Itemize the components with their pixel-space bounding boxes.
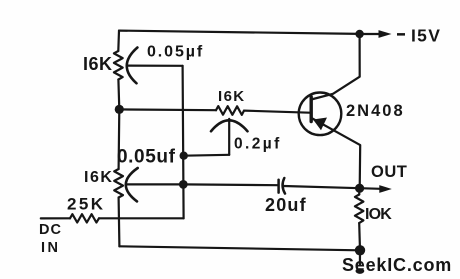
wire bottom rail (119, 246, 360, 250)
capacitor C4 20uf right curved plate (283, 178, 285, 194)
wire left rail mid (117, 80, 120, 110)
resistor R4 25K (horizontal) (70, 214, 99, 222)
svg-text:I6K: I6K (84, 169, 113, 186)
svg-text:DC: DC (39, 222, 62, 238)
wire 25K to node line (99, 217, 184, 219)
wire OUT arrow shaft (360, 187, 381, 190)
transistor Q1 circle (299, 93, 342, 136)
capacitor C2 0.2uf arc plate (211, 120, 248, 131)
wire base lead (244, 111, 310, 113)
node OUT junction dot (355, 184, 364, 193)
wire left rail upper (117, 31, 120, 51)
transistor Q1 collector lead (311, 34, 360, 100)
svg-text:0.05µf: 0.05µf (147, 44, 204, 61)
svg-text:25K: 25K (67, 195, 105, 214)
svg-text:IN: IN (41, 240, 61, 256)
svg-text:I5V: I5V (411, 25, 441, 45)
svg-text:20uf: 20uf (265, 195, 307, 215)
wire left rail lower (117, 109, 120, 169)
node -15V junction dot (355, 30, 363, 38)
transistor Q1 base bar (310, 97, 313, 122)
capacitor C1 stem wire (128, 64, 183, 66)
capacitor C4 20uf left plate (277, 180, 280, 193)
wire base (node A to transistor base) (119, 108, 216, 111)
resistor R5 10K (vertical) (355, 195, 364, 224)
wire OUT node down to 10K (358, 188, 361, 194)
wire node B to C2 stem (184, 154, 230, 157)
arrowhead -15V (379, 30, 392, 38)
wire vertical node line x183 (183, 66, 184, 219)
wire C4 to OUT node (284, 186, 360, 188)
capacitor C2 0.2uf stem (228, 119, 230, 155)
svg-text:0.05uf: 0.05uf (117, 147, 176, 168)
svg-text:I6K: I6K (218, 88, 246, 105)
resistor R3 16K (horizontal, base) (216, 106, 244, 115)
svg-text:2N408: 2N408 (346, 102, 405, 120)
wire -15V arrow shaft (360, 33, 380, 35)
svg-text:0.2µf: 0.2µf (234, 136, 282, 153)
capacitor C3 0.05uf arc plate (126, 168, 138, 201)
node C junction dot (179, 180, 188, 189)
label -15V minus sign (397, 33, 405, 36)
wire DC IN lead (41, 217, 70, 219)
node A junction dot (115, 105, 124, 114)
transistor Q1 emitter arrow (313, 118, 327, 131)
bottom terminal blob (356, 268, 365, 274)
svg-text:I6K: I6K (83, 54, 113, 74)
transistor Q1 emitter lead (312, 118, 361, 188)
wire left rail bottom (117, 198, 120, 247)
wire stub below bottom node (359, 250, 361, 266)
wire top rail (119, 31, 360, 34)
arrowhead OUT (379, 185, 392, 193)
resistor R2 16K (lower left, vertical) (114, 169, 123, 198)
node bottom junction dot (355, 245, 365, 255)
capacitor C1 0.05uf arc plate (127, 48, 138, 84)
svg-text:OUT: OUT (371, 163, 407, 181)
node B junction dot (180, 152, 188, 160)
svg-text:IOK: IOK (365, 206, 392, 223)
wire 10K to bottom node (358, 223, 361, 250)
capacitor C3 stem / out wire left (127, 183, 278, 186)
resistor R1 16K (top left, vertical) (114, 51, 123, 80)
